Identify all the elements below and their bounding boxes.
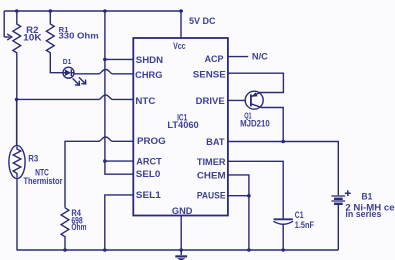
svg-text:PROG: PROG xyxy=(137,136,166,146)
svg-text:TIMER: TIMER xyxy=(197,157,226,167)
svg-text:Vcc: Vcc xyxy=(173,41,186,51)
svg-text:DRIVE: DRIVE xyxy=(196,96,225,106)
svg-text:R3: R3 xyxy=(28,154,38,164)
svg-text:NTC: NTC xyxy=(135,96,156,106)
svg-text:Ohm: Ohm xyxy=(71,222,86,232)
svg-text:Thermistor: Thermistor xyxy=(24,176,63,186)
svg-text:1.5nF: 1.5nF xyxy=(295,220,315,230)
svg-text:in series: in series xyxy=(345,209,381,219)
svg-text:5V DC: 5V DC xyxy=(189,16,216,26)
svg-text:SEL0: SEL0 xyxy=(136,169,161,179)
svg-text:LT4060: LT4060 xyxy=(167,120,198,130)
svg-text:330 Ohm: 330 Ohm xyxy=(59,30,100,40)
svg-text:CHEM: CHEM xyxy=(197,170,226,180)
svg-text:ARCT: ARCT xyxy=(136,156,162,166)
svg-text:C1: C1 xyxy=(295,210,304,220)
svg-text:SENSE: SENSE xyxy=(193,69,226,79)
svg-text:SEL1: SEL1 xyxy=(136,190,161,200)
svg-text:MJD210: MJD210 xyxy=(240,119,270,129)
svg-text:SHDN: SHDN xyxy=(136,55,163,65)
svg-text:BAT: BAT xyxy=(206,137,225,147)
svg-text:D1: D1 xyxy=(63,57,72,66)
svg-text:B1: B1 xyxy=(362,191,373,201)
svg-text:ACP: ACP xyxy=(205,54,224,64)
svg-text:CHRG: CHRG xyxy=(135,70,162,80)
svg-text:10K: 10K xyxy=(23,32,42,42)
svg-text:GND: GND xyxy=(172,206,193,216)
svg-text:N/C: N/C xyxy=(252,52,269,62)
svg-text:PAUSE: PAUSE xyxy=(197,191,226,201)
